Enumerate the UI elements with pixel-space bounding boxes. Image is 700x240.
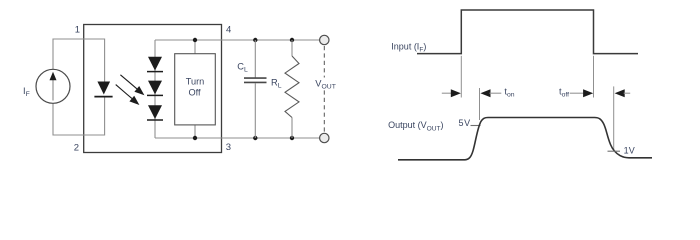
tick at 1V level [608,150,621,152]
svg-text:1: 1 [75,25,80,36]
current source IF [36,69,70,103]
node: junction dot bottom of turn-off [193,136,197,140]
output waveform VOUT [398,118,652,160]
arrow left for ton [480,89,501,97]
LED D1 [94,82,112,97]
measurement line at output rise 5V point [479,88,481,120]
photodiode PD2 [147,81,163,96]
node: junction dot CL top [253,38,257,42]
package outline U1 (optocoupler DIP) [84,25,222,153]
light emission arrow 2 [116,85,140,105]
svg-text:3: 3 [226,142,231,153]
svg-text:V: V [629,146,635,156]
wire: turn-off block bottom stub [194,125,196,138]
terminal VOUT bottom [320,133,329,142]
wire: current source loop top [53,39,105,82]
wire: bottom rail to output terminal [155,137,320,139]
node: junction dot RL top [290,38,294,42]
svg-text:5: 5 [459,118,464,128]
wire: turn-off block top stub [194,40,196,54]
node: junction dot top of turn-off [193,38,197,42]
measurement line at output fall 1V point [613,86,615,151]
capacitor CL [244,40,267,138]
svg-text:2: 2 [74,143,79,154]
wire: photodiode stack vertical [154,40,156,138]
tick at 5V level [471,125,481,127]
arrow right toward falling edge [570,89,593,97]
photodiode PD1 [147,57,163,72]
node: junction dot RL bottom [290,136,294,140]
wire: current source loop bottom [53,97,105,135]
svg-text:Turn: Turn [186,76,205,86]
wire: top rail to output terminal [155,39,320,41]
label VOUT [314,78,336,91]
resistor RL [285,40,299,138]
arrow right toward rising edge [442,89,461,97]
measurement line at input falling edge [593,56,595,98]
arrow left at output 1V point [615,89,631,97]
input waveform IF pulse [417,10,638,54]
svg-text:Off: Off [188,88,201,98]
svg-text:4: 4 [226,25,231,36]
measurement line at input rising edge [460,56,462,98]
node: junction dot CL bottom [253,136,257,140]
turn-off block [175,54,216,125]
light emission arrow 1 [120,75,144,96]
terminal VOUT top [320,35,329,44]
svg-text:V: V [464,118,470,128]
photodiode PD3 [147,105,163,120]
wire: dashed VOUT line [323,46,325,133]
